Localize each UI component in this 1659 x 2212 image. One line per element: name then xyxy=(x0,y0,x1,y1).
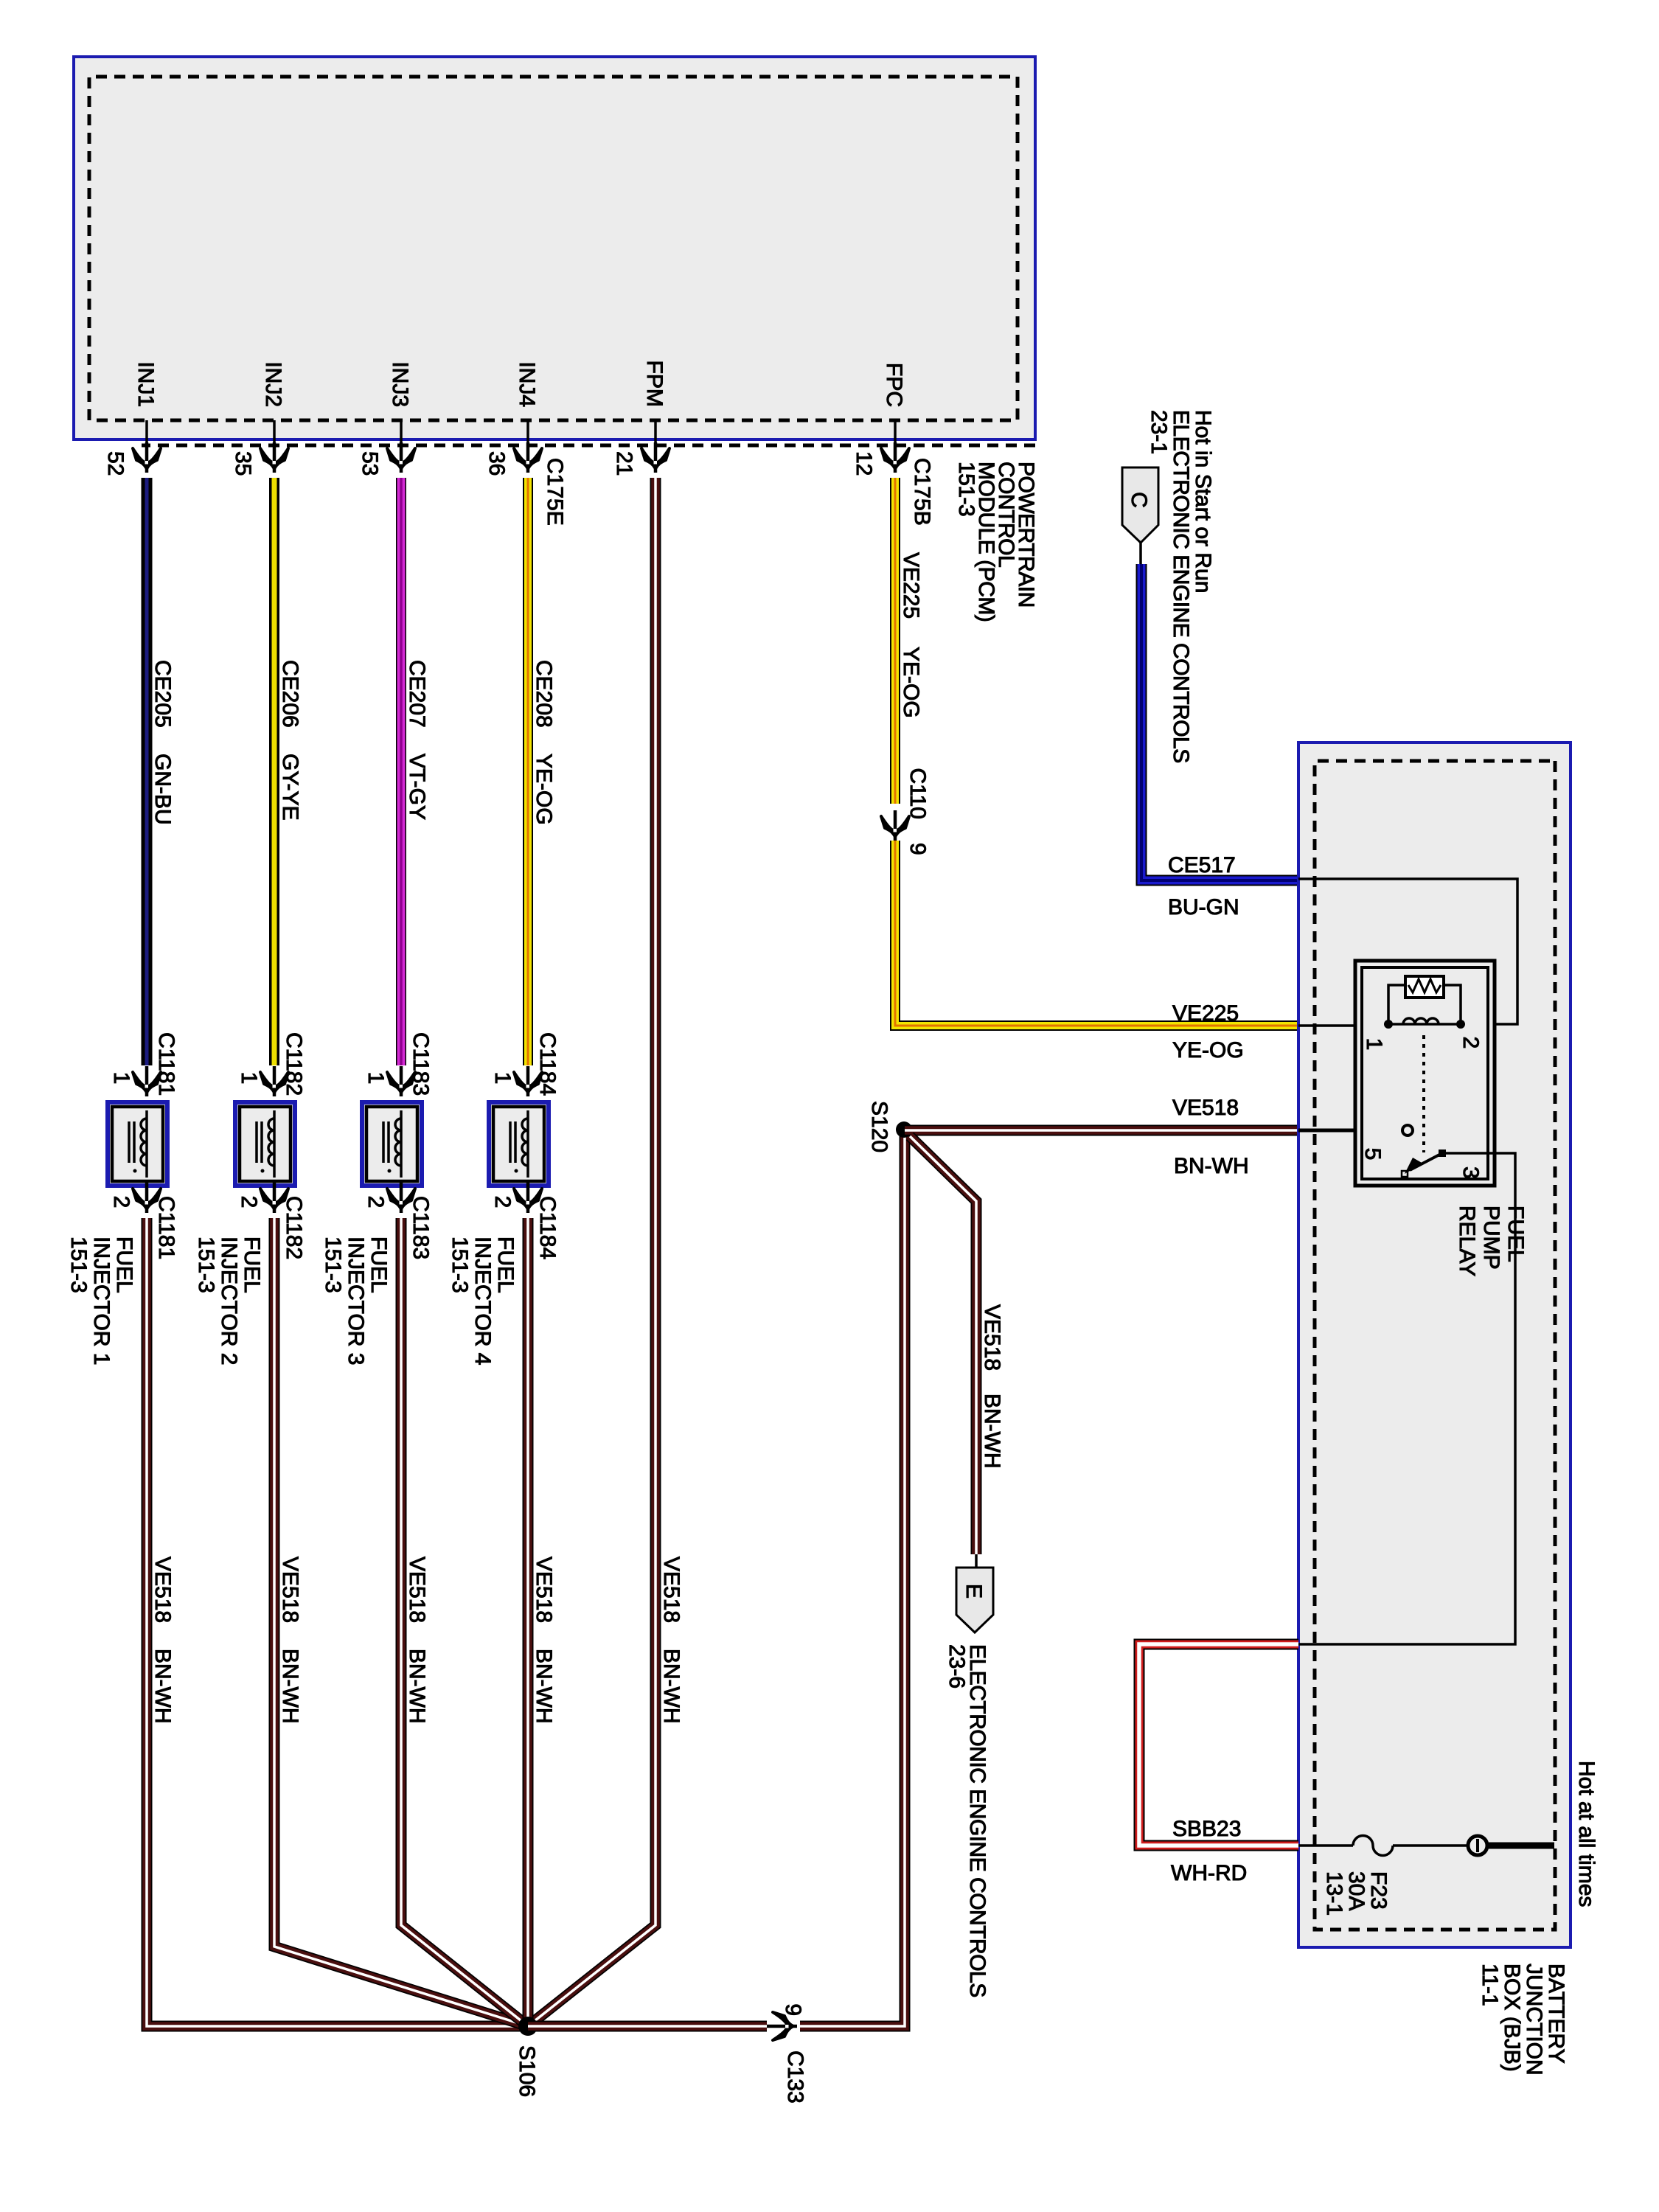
svg-text:Hot at all times: Hot at all times xyxy=(1574,1761,1599,1907)
svg-text:CE207: CE207 xyxy=(405,660,429,728)
wire VE518 BN-WH from FPM pin 21 to splice S106 xyxy=(528,478,655,2026)
wire from CE517 to relay pin 2 xyxy=(1298,879,1517,1024)
WH-RD label xyxy=(1171,1861,1247,1885)
svg-text:ELECTRONIC ENGINE CONTROLS: ELECTRONIC ENGINE CONTROLS xyxy=(965,1644,990,1997)
svg-text:CE517: CE517 xyxy=(1168,853,1236,877)
svg-text:1: 1 xyxy=(490,1072,515,1085)
PCM pin INJ1 xyxy=(103,361,161,476)
svg-text:CE208: CE208 xyxy=(532,660,556,728)
PCM module box (POWERTRAIN CONTROL MODULE) xyxy=(74,57,1035,439)
svg-text:INJECTOR 1: INJECTOR 1 xyxy=(89,1237,114,1365)
svg-text:YE-OG: YE-OG xyxy=(532,754,556,825)
connector C1181 pin 2 xyxy=(109,1183,178,1259)
svg-text:JUNCTION: JUNCTION xyxy=(1522,1964,1546,2076)
inline connector C133 pin 9 xyxy=(767,2003,807,2103)
wire VE518 BN-WH from injector 2 to splice S106 xyxy=(274,1218,528,2026)
YE-OG label xyxy=(1172,1038,1244,1062)
battery junction box (BJB) xyxy=(1298,742,1571,1947)
svg-text:BOX (BJB): BOX (BJB) xyxy=(1500,1964,1524,2072)
connector C1182 pin 1 xyxy=(237,1032,306,1096)
svg-text:VT-GY: VT-GY xyxy=(405,754,429,820)
svg-text:VE225: VE225 xyxy=(1172,1001,1239,1026)
svg-text:BN-WH: BN-WH xyxy=(278,1649,302,1724)
connector C1184 pin 2 xyxy=(490,1183,560,1259)
svg-text:GN-BU: GN-BU xyxy=(150,754,175,825)
svg-text:151-3: 151-3 xyxy=(321,1237,345,1293)
connector E (to ELECTRONIC ENGINE CONTROLS 23-6) xyxy=(956,1554,993,1632)
Hot at all times label xyxy=(1574,1761,1599,1907)
svg-text:VE225: VE225 xyxy=(899,552,923,619)
svg-text:BN-WH: BN-WH xyxy=(980,1394,1004,1469)
svg-text:35: 35 xyxy=(231,451,255,476)
svg-text:C1182: C1182 xyxy=(282,1032,306,1096)
power feed label (Hot in Start or Run) xyxy=(1147,410,1215,763)
connector C175 dashed boundary line xyxy=(142,444,1035,448)
svg-text:ELECTRONIC ENGINE CONTROLS: ELECTRONIC ENGINE CONTROLS xyxy=(1169,410,1193,763)
PCM pin INJ4 xyxy=(484,361,567,525)
svg-text:23-1: 23-1 xyxy=(1147,410,1171,454)
svg-text:BN-WH: BN-WH xyxy=(150,1649,175,1724)
fuel injector 3 (solenoid U3) xyxy=(362,1102,422,1186)
BU-GN label xyxy=(1168,895,1239,919)
connector E destination label xyxy=(945,1644,990,1997)
VE518 label xyxy=(1172,1096,1239,1120)
svg-text:Hot in Start or Run: Hot in Start or Run xyxy=(1191,410,1215,593)
PCM label text xyxy=(954,462,1038,622)
svg-text:12: 12 xyxy=(852,451,876,476)
connector C1181 pin 1 xyxy=(109,1032,178,1096)
splice S106 xyxy=(515,2017,539,2097)
svg-text:30A: 30A xyxy=(1344,1871,1368,1910)
wire CE206 GY-YE from INJ2 pin 35 to fuel injector 2 xyxy=(274,478,302,1065)
svg-text:C133: C133 xyxy=(783,2051,807,2104)
SBB23 label xyxy=(1172,1817,1241,1841)
svg-text:PUMP: PUMP xyxy=(1479,1206,1503,1270)
svg-text:S106: S106 xyxy=(515,2045,539,2097)
svg-text:VE518: VE518 xyxy=(1172,1096,1239,1120)
svg-text:151-3: 151-3 xyxy=(448,1237,472,1293)
VE225 label xyxy=(1172,1001,1239,1026)
svg-text:CE205: CE205 xyxy=(150,660,175,728)
PCM pin INJ2 xyxy=(231,361,288,476)
svg-text:YE-OG: YE-OG xyxy=(899,647,923,718)
svg-text:9: 9 xyxy=(781,2003,805,2016)
svg-text:3: 3 xyxy=(1458,1166,1483,1179)
fuel injector 4 label xyxy=(448,1237,518,1365)
svg-text:C1184: C1184 xyxy=(535,1032,560,1096)
svg-text:36: 36 xyxy=(484,451,509,476)
svg-text:1: 1 xyxy=(237,1072,261,1085)
wire VE518 BN-WH from S106 to S120 xyxy=(528,1130,905,2026)
svg-text:C1183: C1183 xyxy=(408,1196,433,1259)
svg-text:C175E: C175E xyxy=(543,458,567,526)
svg-text:VE518: VE518 xyxy=(532,1557,556,1623)
svg-text:C1181: C1181 xyxy=(154,1196,178,1259)
svg-text:9: 9 xyxy=(905,843,930,855)
svg-text:FUEL: FUEL xyxy=(240,1237,264,1293)
wire VE225 YE-OG from FPC pin 12 to C110 xyxy=(895,478,923,804)
svg-text:1: 1 xyxy=(109,1072,133,1085)
svg-text:BN-WH: BN-WH xyxy=(1174,1154,1249,1178)
wire SBB23 WH-RD loop outside BJB xyxy=(1139,1644,1298,1846)
wire VE518 BN-WH from injector 3 to splice S106 xyxy=(401,1218,528,2026)
svg-text:FPM: FPM xyxy=(642,361,667,407)
wire VE518 BN-WH from S120 to connector E xyxy=(910,1136,1004,1554)
svg-text:YE-OG: YE-OG xyxy=(1172,1038,1244,1062)
svg-text:151-3: 151-3 xyxy=(194,1237,218,1293)
svg-text:WH-RD: WH-RD xyxy=(1171,1861,1247,1885)
svg-text:INJECTOR 2: INJECTOR 2 xyxy=(217,1237,241,1365)
inline connector C110 pin 9 xyxy=(881,768,930,855)
svg-text:C1183: C1183 xyxy=(408,1032,433,1096)
svg-text:FUEL: FUEL xyxy=(493,1237,518,1293)
svg-text:C110: C110 xyxy=(905,768,930,820)
svg-text:2: 2 xyxy=(364,1196,388,1208)
PCM pin FPM xyxy=(612,361,669,476)
svg-text:151-3: 151-3 xyxy=(954,462,978,516)
svg-text:2: 2 xyxy=(1458,1037,1483,1049)
fuel injector 3 label xyxy=(321,1237,391,1365)
svg-text:VE518: VE518 xyxy=(659,1557,684,1623)
svg-text:INJ1: INJ1 xyxy=(133,361,158,407)
svg-text:C1184: C1184 xyxy=(535,1196,560,1259)
wire CE207 VT-GY from INJ3 pin 53 to fuel injector 3 xyxy=(401,478,429,1065)
wire CE517 BU-GN from connector C to battery junction box xyxy=(1141,564,1298,880)
wire VE518 BN-WH from injector 1 to splice S106 xyxy=(147,1218,528,2026)
wire from VE225 to relay pin 1 xyxy=(1298,1024,1394,1027)
svg-text:C: C xyxy=(1127,492,1151,508)
svg-text:13-1: 13-1 xyxy=(1322,1871,1346,1916)
svg-text:RELAY: RELAY xyxy=(1455,1206,1479,1276)
fuel pump relay K1 box xyxy=(1355,961,1495,1186)
svg-text:VE518: VE518 xyxy=(150,1557,175,1623)
wire VE225 YE-OG from C110 to fuel pump relay pin 1 xyxy=(895,841,1298,1026)
svg-text:FUEL: FUEL xyxy=(366,1237,391,1293)
svg-text:FUEL: FUEL xyxy=(112,1237,136,1293)
svg-text:VE518: VE518 xyxy=(980,1304,1004,1371)
svg-text:SBB23: SBB23 xyxy=(1172,1817,1241,1841)
relay pin 5 xyxy=(1360,1125,1413,1160)
svg-text:VE518: VE518 xyxy=(405,1557,429,1623)
svg-text:INJ2: INJ2 xyxy=(261,361,285,407)
VE518 BN-WH wire labels xyxy=(150,1557,684,1724)
fuel injector 4 (solenoid U4) xyxy=(489,1102,549,1186)
svg-text:INJ4: INJ4 xyxy=(515,361,539,407)
svg-text:CE206: CE206 xyxy=(278,660,302,728)
relay pin labels 1 and 2 xyxy=(1362,1037,1483,1051)
CE517 label xyxy=(1168,853,1236,877)
connector C1183 pin 2 xyxy=(364,1183,433,1259)
svg-text:BN-WH: BN-WH xyxy=(659,1649,684,1724)
svg-text:FPC: FPC xyxy=(882,363,906,407)
wire VE518 BN-WH from injector 4 to splice S106 xyxy=(523,1218,534,2026)
svg-text:151-3: 151-3 xyxy=(66,1237,91,1293)
svg-text:BN-WH: BN-WH xyxy=(405,1649,429,1724)
svg-text:GY-YE: GY-YE xyxy=(278,754,302,821)
relay resistor (parallel with coil) xyxy=(1388,976,1461,1024)
svg-text:C1182: C1182 xyxy=(282,1196,306,1259)
splice S120 xyxy=(867,1101,912,1152)
svg-text:52: 52 xyxy=(103,451,128,476)
svg-text:1: 1 xyxy=(1362,1038,1386,1051)
fuel injector 1 (solenoid U1) xyxy=(108,1102,167,1186)
svg-text:BN-WH: BN-WH xyxy=(532,1649,556,1724)
connector C (from ELECTRONIC ENGINE CONTROLS 23-1) xyxy=(1122,467,1158,566)
fuel injector 2 (solenoid U2) xyxy=(235,1102,295,1186)
svg-text:BU-GN: BU-GN xyxy=(1168,895,1239,919)
svg-text:2: 2 xyxy=(490,1196,515,1208)
svg-text:2: 2 xyxy=(237,1196,261,1208)
relay coil between pins 1 and 2 xyxy=(1384,1018,1465,1029)
svg-text:C175B: C175B xyxy=(910,458,934,526)
svg-text:VE518: VE518 xyxy=(278,1557,302,1623)
fuel injector 1 label xyxy=(66,1237,136,1365)
battery terminal stud xyxy=(1468,1836,1487,1855)
fuel pump relay label xyxy=(1455,1206,1528,1276)
svg-text:E: E xyxy=(961,1584,986,1599)
wire CE208 YE-OG from INJ4 pin 36 to fuel injector 4 xyxy=(528,478,556,1065)
fuel injector 2 label xyxy=(194,1237,264,1365)
svg-text:5: 5 xyxy=(1360,1148,1385,1161)
connector C1184 pin 1 xyxy=(490,1032,560,1096)
svg-text:S120: S120 xyxy=(867,1101,891,1152)
wire CE205 GN-BU from INJ1 pin 52 to fuel injector 1 xyxy=(147,478,175,1065)
svg-text:2: 2 xyxy=(109,1196,133,1208)
BN-WH label xyxy=(1174,1154,1249,1178)
svg-text:INJECTOR 3: INJECTOR 3 xyxy=(344,1237,368,1365)
PCM pin FPC xyxy=(852,363,934,526)
fuse F23 30A xyxy=(1298,1836,1468,1916)
connector C1183 pin 1 xyxy=(364,1032,433,1096)
svg-text:INJECTOR 4: INJECTOR 4 xyxy=(470,1237,495,1365)
connector C1182 pin 2 xyxy=(237,1183,306,1259)
svg-text:INJ3: INJ3 xyxy=(388,361,412,407)
svg-text:F23: F23 xyxy=(1366,1871,1391,1910)
svg-text:23-6: 23-6 xyxy=(945,1644,969,1688)
svg-text:53: 53 xyxy=(358,451,382,476)
svg-text:1: 1 xyxy=(364,1072,388,1085)
svg-text:BATTERY: BATTERY xyxy=(1544,1964,1568,2064)
svg-text:C1181: C1181 xyxy=(154,1032,178,1096)
BJB label xyxy=(1478,1964,1568,2076)
svg-text:11-1: 11-1 xyxy=(1478,1964,1502,2006)
wire VE518 BN-WH from S120 to fuel pump relay pin 5 xyxy=(905,1125,1298,1136)
thick feed line (hot at all times) xyxy=(1487,1843,1554,1849)
relay armature dotted link xyxy=(1422,1035,1425,1152)
wire from relay pin 5 to VE518 xyxy=(1298,1129,1402,1133)
relay pin 3 contact and switch blade xyxy=(1402,1150,1483,1179)
wire from relay pin 3 to fuse F23 xyxy=(1298,1153,1515,1644)
svg-text:21: 21 xyxy=(612,451,636,476)
PCM pin INJ3 xyxy=(358,361,415,476)
